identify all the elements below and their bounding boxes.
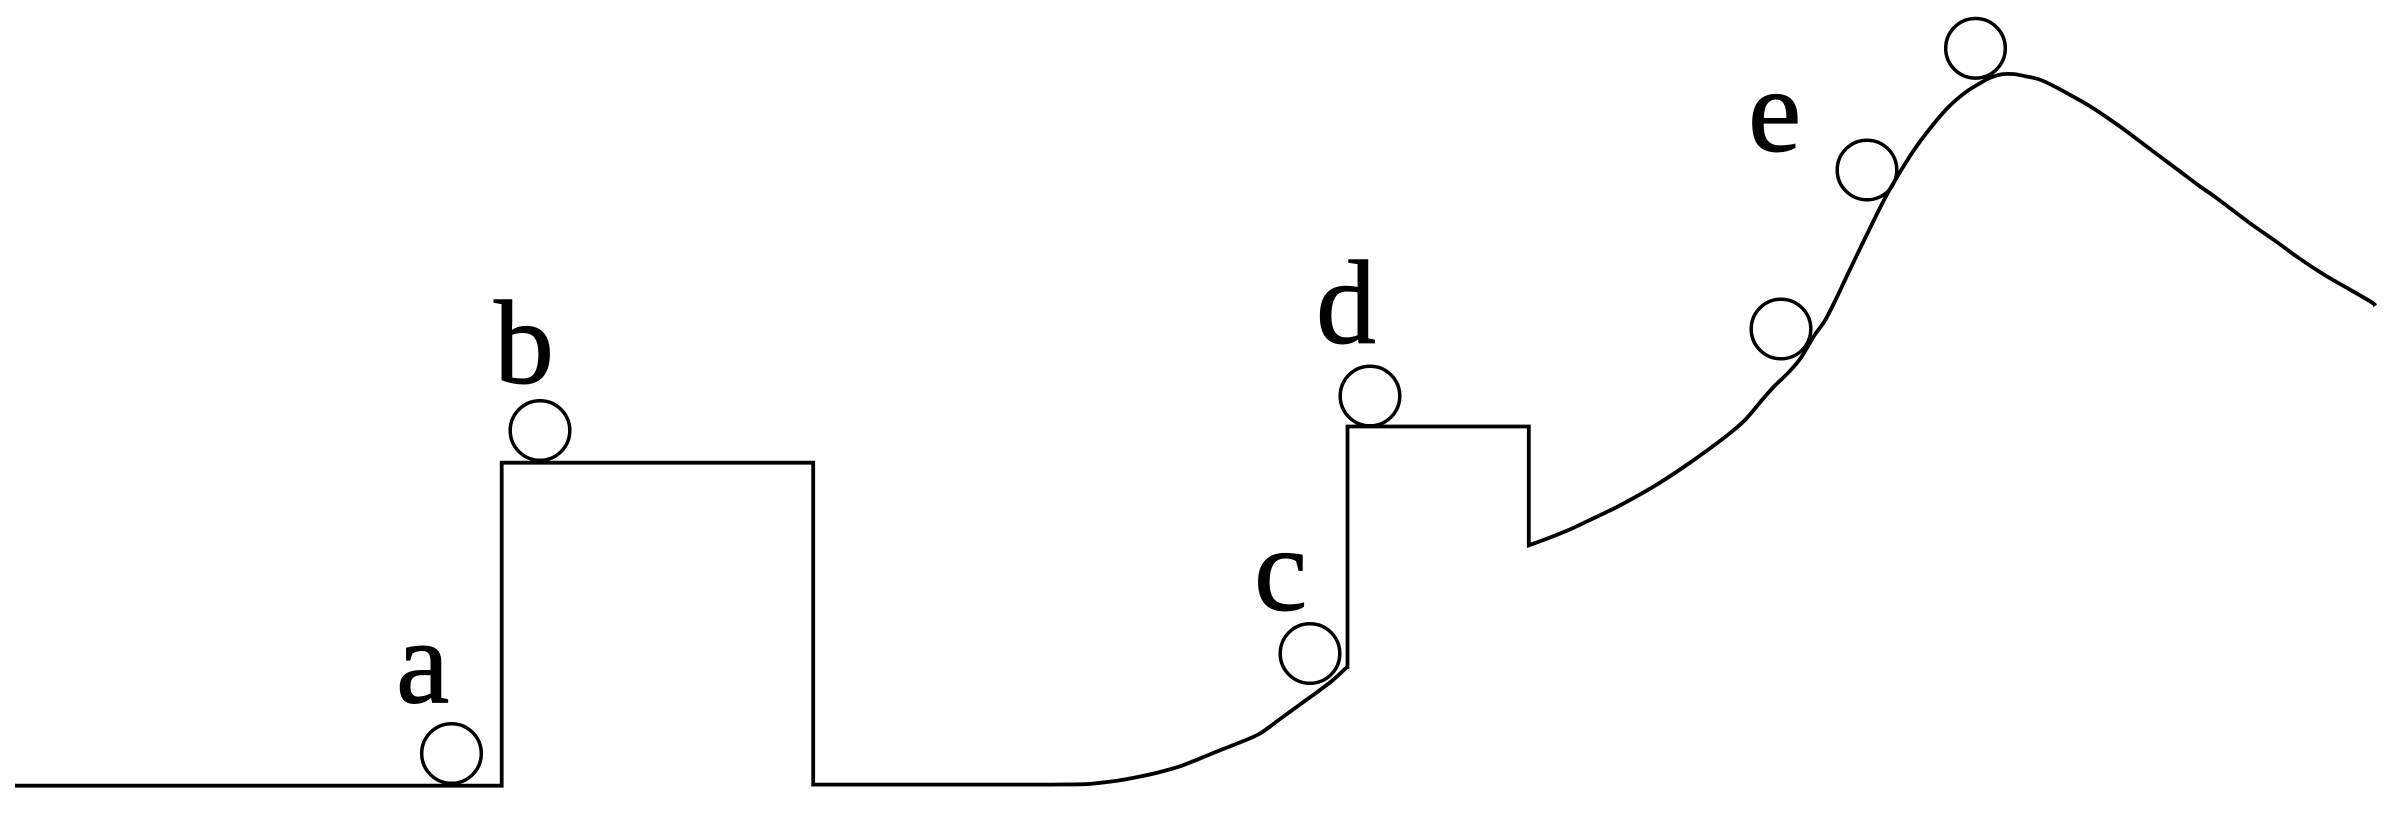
svg-text:b: b — [494, 276, 554, 409]
ball c — [1280, 624, 1340, 684]
ball a — [422, 724, 482, 784]
ball d — [1340, 366, 1400, 426]
ball b — [510, 401, 570, 461]
svg-text:a: a — [396, 596, 449, 729]
svg-text:d: d — [1316, 236, 1376, 369]
svg-text:c: c — [1254, 503, 1307, 636]
svg-text:e: e — [1748, 44, 1801, 177]
ball at peak — [1946, 19, 2006, 79]
ball on slope lower — [1751, 299, 1811, 359]
ball on slope upper — [1837, 140, 1897, 200]
